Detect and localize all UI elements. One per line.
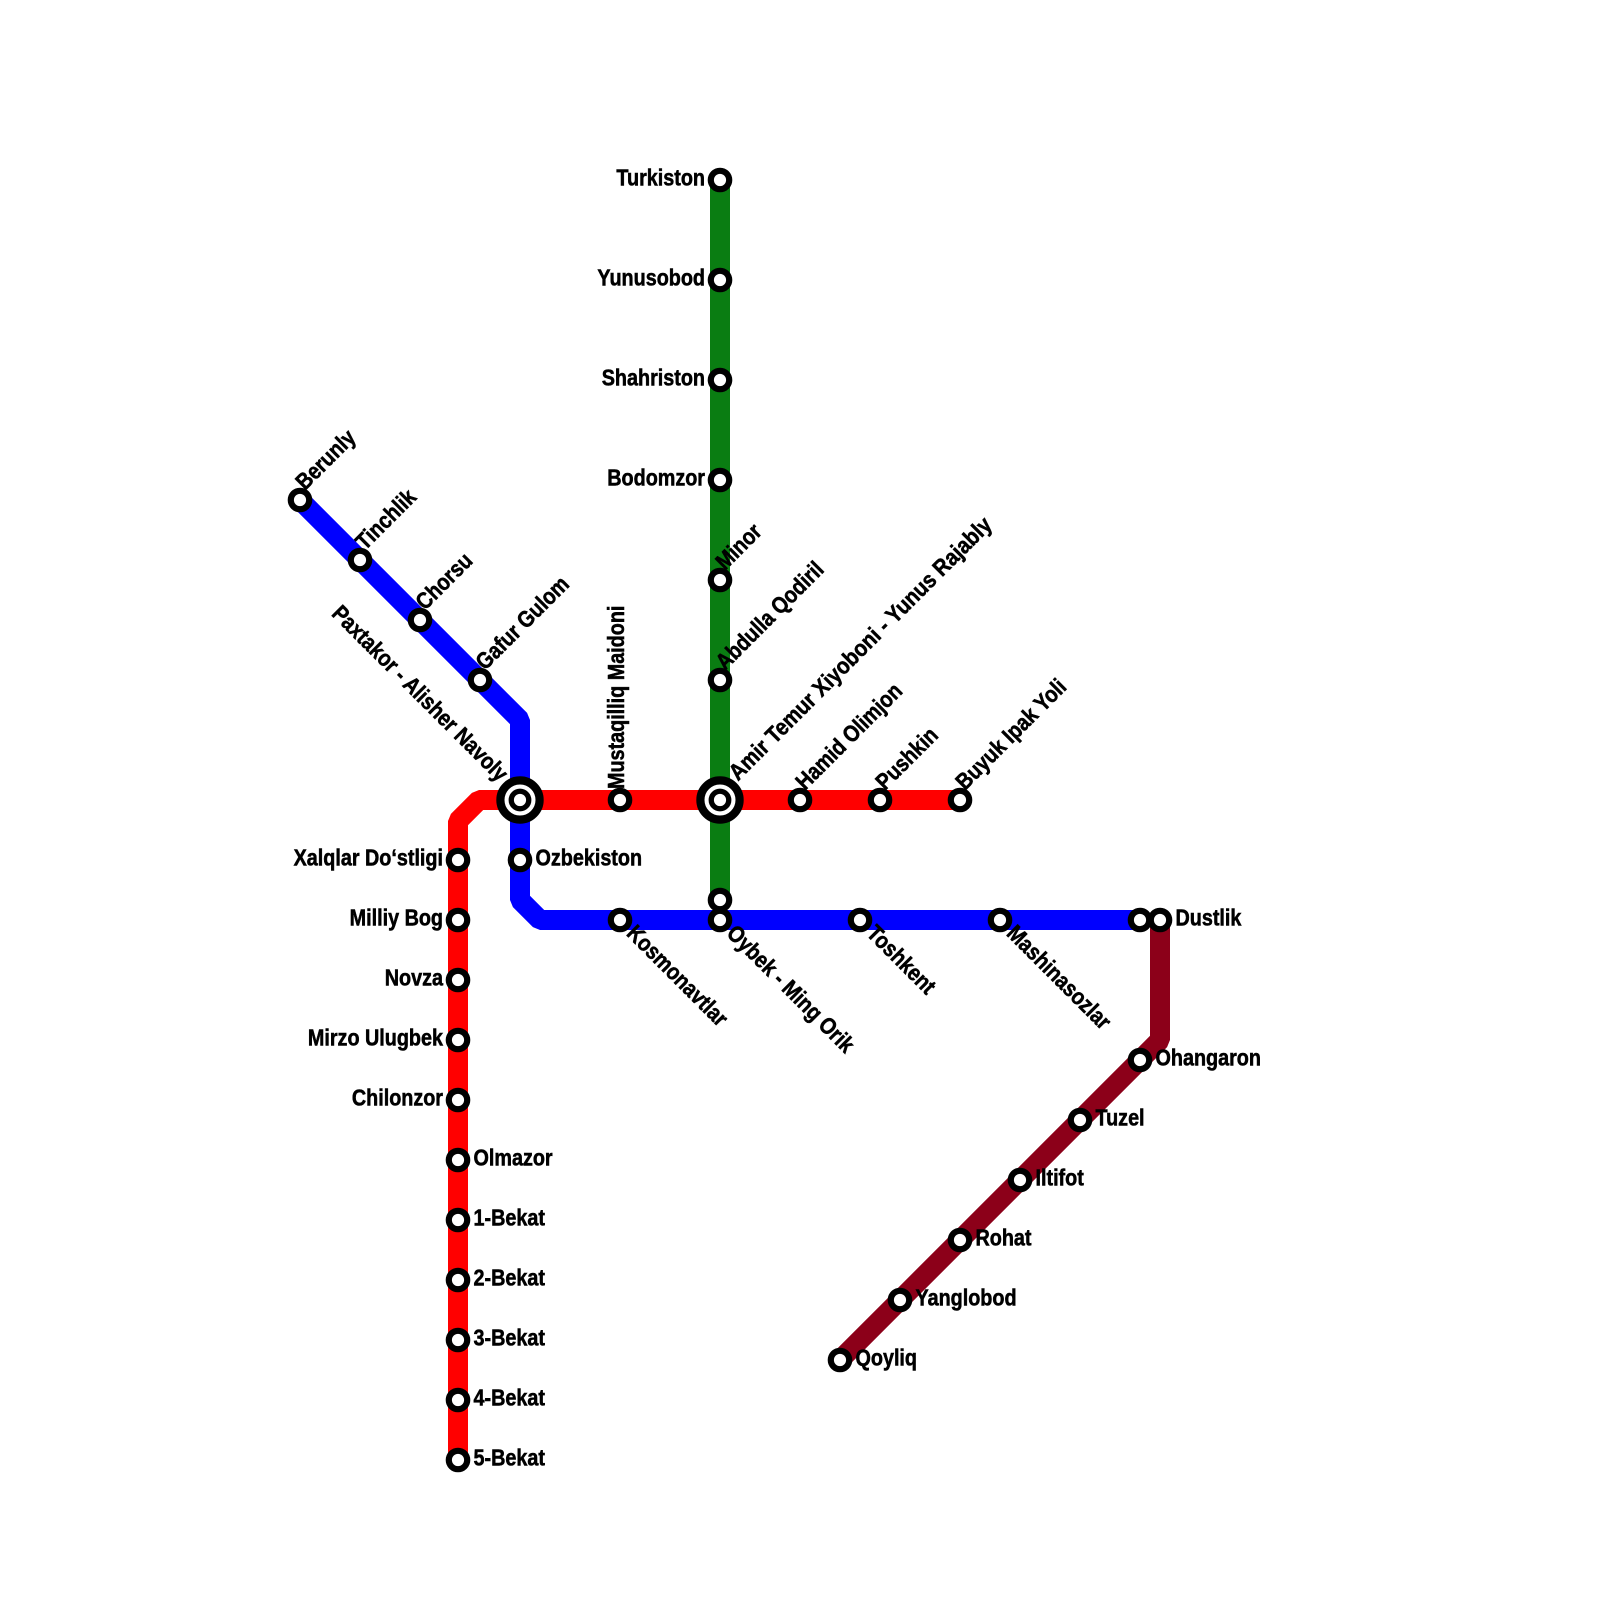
svg-text:Novza: Novza [385,965,444,991]
svg-text:Milliy Bog: Milliy Bog [350,905,443,931]
svg-text:Qoyliq: Qoyliq [856,1345,918,1371]
node station Gafur Gulom (blue line) [471,671,489,689]
svg-text:Yanglobod: Yanglobod [916,1285,1017,1311]
node station 2-Bekat (red line) [449,1271,467,1289]
wire red Chilonzor line [458,800,960,1460]
node station 4-Bekat (red line) [449,1391,467,1409]
wire maroon Halqa (circle) line [840,920,1160,1360]
node station Tuzel (maroon line) [1071,1111,1089,1129]
node station Ohangaron (maroon line) [1131,1051,1149,1069]
svg-text:Bodomzor: Bodomzor [607,465,705,491]
svg-text:Iltifot: Iltifot [1036,1165,1084,1191]
node station Dustlik (blue line) [1131,911,1149,929]
node station Minor (green line) [711,571,729,589]
node station Oybek - Ming Orik (blue line) [711,911,729,929]
node station Abdulla Qodiril (green line) [711,671,729,689]
node station Iltifot (maroon line) [1011,1171,1029,1189]
node station Qoyliq (maroon line) [831,1351,849,1369]
node station Ming Orik (green line) [711,891,729,909]
wire green Yunusobod line [710,180,730,900]
svg-text:Ozbekiston: Ozbekiston [536,845,643,871]
node station Toshkent (blue line) [851,911,869,929]
node station Ozbekiston (blue line) [511,851,529,869]
svg-text:Rohat: Rohat [976,1225,1032,1251]
node station 3-Bekat (red line) [449,1331,467,1349]
svg-text:Ohangaron: Ohangaron [1156,1045,1261,1071]
node station Xalqlar Do‘stligi (red line) [449,851,467,869]
node station Turkiston (green line) [711,171,729,189]
wire blue Ozbekiston line [300,500,1140,920]
svg-text:Turkiston: Turkiston [616,165,705,191]
svg-text:Mustaqilliq Maidoni: Mustaqilliq Maidoni [604,606,630,789]
node station Kosmonavtlar (blue line) [611,911,629,929]
svg-text:Olmazor: Olmazor [474,1145,554,1171]
node station Bodomzor (green line) [711,471,729,489]
node station Chorsu (blue line) [411,611,429,629]
svg-text:Yunusobod: Yunusobod [597,265,705,291]
svg-text:Chilonzor: Chilonzor [352,1085,444,1111]
node station Mashinasozlar (blue line) [991,911,1009,929]
svg-text:4-Bekat: 4-Bekat [474,1385,545,1411]
node station 5-Bekat (red line) [449,1451,467,1469]
node station Novza (red line) [449,971,467,989]
svg-text:Mirzo Ulugbek: Mirzo Ulugbek [308,1025,443,1051]
svg-text:5-Bekat: 5-Bekat [474,1445,545,1471]
svg-text:Xalqlar Do‘stligi: Xalqlar Do‘stligi [294,845,443,871]
node station Chilonzor (red line) [449,1091,467,1109]
svg-text:3-Bekat: 3-Bekat [474,1325,545,1351]
svg-text:2-Bekat: 2-Bekat [474,1265,545,1291]
node interchange station Amir Temur Xiyoboni - Yunus Rajably [700,780,739,819]
node station Pushkin (red line) [871,791,889,809]
node station Mustaqilliq Maidoni (red line) [611,791,629,809]
node station Tinchlik (blue line) [351,551,369,569]
node station Olmazor (red line) [449,1151,467,1169]
node station Yanglobod (maroon line) [891,1291,909,1309]
node station Dustlik (maroon line) [1151,911,1169,929]
node station Berunly (blue line) [291,491,309,509]
node station Milliy Bog (red line) [449,911,467,929]
node station Buyuk Ipak Yoli (red line) [951,791,969,809]
svg-text:Tuzel: Tuzel [1096,1105,1145,1131]
node station Shahriston (green line) [711,371,729,389]
node station Hamid Olimjon (red line) [791,791,809,809]
svg-text:Shahriston: Shahriston [602,365,705,391]
node station Yunusobod (green line) [711,271,729,289]
node station Mirzo Ulugbek (red line) [449,1031,467,1049]
svg-text:1-Bekat: 1-Bekat [474,1205,545,1231]
svg-text:Dustlik: Dustlik [1176,905,1242,931]
node station Rohat (maroon line) [951,1231,969,1249]
node station 1-Bekat (red line) [449,1211,467,1229]
node interchange station Paxtakor - Alisher Navoly [500,780,539,819]
